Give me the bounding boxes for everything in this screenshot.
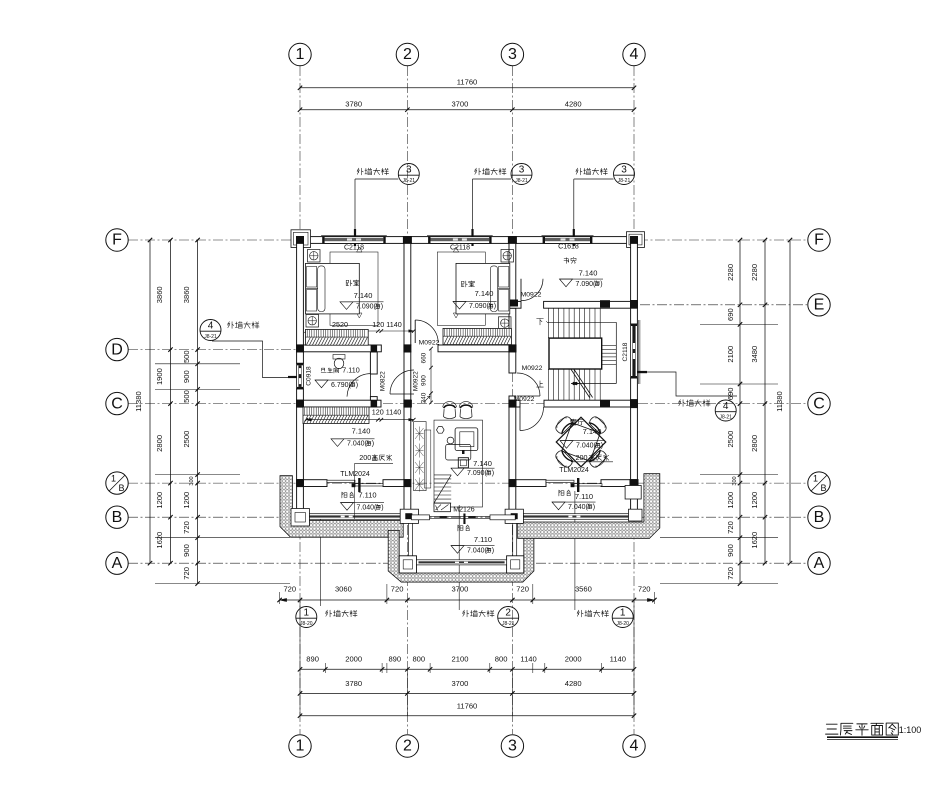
svg-text:4: 4 — [208, 320, 214, 331]
svg-text:800: 800 — [412, 655, 425, 664]
svg-text:1: 1 — [296, 46, 305, 63]
svg-text:4: 4 — [723, 401, 729, 412]
svg-text:7.040(: 7.040( — [568, 504, 589, 511]
svg-text:3780: 3780 — [345, 100, 362, 109]
svg-text:2800: 2800 — [155, 435, 164, 452]
svg-text:7.110: 7.110 — [474, 535, 492, 544]
svg-text:J8-21: J8-21 — [515, 178, 528, 184]
svg-text:C0918: C0918 — [306, 366, 313, 386]
svg-text:1900: 1900 — [155, 368, 164, 385]
svg-text:120 1140: 120 1140 — [372, 320, 401, 329]
svg-text:500: 500 — [182, 390, 191, 403]
svg-text:120 1140: 120 1140 — [372, 407, 401, 416]
svg-text:7.110: 7.110 — [575, 492, 593, 501]
svg-text:3780: 3780 — [345, 679, 362, 688]
svg-text:2: 2 — [403, 46, 412, 63]
svg-text:M2126: M2126 — [453, 507, 475, 514]
svg-text:890: 890 — [306, 655, 319, 664]
svg-text:C: C — [813, 395, 825, 412]
svg-text:): ) — [356, 382, 358, 389]
svg-text:3: 3 — [508, 46, 517, 63]
svg-text:2500: 2500 — [182, 431, 191, 448]
svg-text:7.140: 7.140 — [475, 289, 494, 298]
svg-text:200: 200 — [359, 453, 371, 462]
svg-text:2: 2 — [505, 607, 511, 618]
svg-text:B: B — [112, 509, 123, 526]
svg-text:B: B — [814, 509, 825, 526]
svg-text:C2118: C2118 — [622, 342, 629, 361]
svg-text:3560: 3560 — [575, 585, 592, 594]
svg-text:J8-21: J8-21 — [719, 415, 732, 421]
svg-text:6.790(: 6.790( — [331, 382, 352, 389]
svg-text:900: 900 — [182, 370, 191, 383]
svg-text:1620: 1620 — [155, 532, 164, 549]
svg-text:11760: 11760 — [457, 702, 478, 711]
svg-text:B: B — [118, 483, 124, 493]
svg-text:TLM2024: TLM2024 — [559, 467, 589, 474]
svg-text:690: 690 — [726, 308, 735, 321]
svg-text:): ) — [381, 304, 383, 311]
svg-text:2280: 2280 — [726, 264, 735, 281]
svg-text:3700: 3700 — [451, 585, 468, 594]
svg-text:2500: 2500 — [726, 431, 735, 448]
svg-text:M0822: M0822 — [380, 371, 387, 391]
svg-text:1140: 1140 — [610, 655, 626, 664]
svg-text:7.040(: 7.040( — [357, 504, 378, 511]
svg-text:300: 300 — [189, 476, 195, 485]
svg-text:3060: 3060 — [335, 585, 352, 594]
svg-text:): ) — [601, 442, 603, 449]
svg-text:2280: 2280 — [750, 264, 759, 281]
svg-text:2000: 2000 — [345, 655, 362, 664]
svg-text:3: 3 — [519, 164, 525, 175]
svg-text:2: 2 — [403, 738, 412, 755]
svg-text:7.110: 7.110 — [358, 491, 376, 500]
svg-text:7.040(: 7.040( — [576, 442, 597, 449]
svg-text:1: 1 — [620, 607, 626, 618]
svg-text:11380: 11380 — [134, 391, 143, 412]
svg-text:900: 900 — [421, 375, 428, 386]
svg-text:720: 720 — [638, 585, 651, 594]
svg-text:3: 3 — [621, 164, 627, 175]
svg-text:2100: 2100 — [726, 346, 735, 363]
svg-text:A: A — [112, 555, 123, 572]
svg-text:890: 890 — [388, 655, 401, 664]
svg-text:1200: 1200 — [750, 492, 759, 509]
svg-text:B: B — [820, 483, 826, 493]
svg-text:7.040(: 7.040( — [347, 441, 368, 448]
svg-text:720: 720 — [182, 567, 191, 580]
svg-text:800: 800 — [495, 655, 508, 664]
svg-text:3480: 3480 — [750, 346, 759, 363]
svg-text:1: 1 — [296, 738, 305, 755]
svg-text:4: 4 — [630, 46, 639, 63]
svg-text:C1618: C1618 — [558, 244, 579, 251]
svg-text:1: 1 — [813, 474, 818, 484]
svg-text:720: 720 — [516, 585, 529, 594]
svg-text:200: 200 — [576, 453, 588, 462]
svg-text:): ) — [381, 504, 383, 511]
svg-text:F: F — [814, 232, 824, 249]
svg-text:690: 690 — [726, 387, 735, 400]
svg-text:7.140: 7.140 — [473, 459, 492, 468]
svg-text:3700: 3700 — [451, 100, 468, 109]
svg-text:3: 3 — [406, 164, 412, 175]
svg-text:7.090(: 7.090( — [356, 304, 377, 311]
svg-text:720: 720 — [182, 521, 191, 534]
svg-text:900: 900 — [726, 544, 735, 557]
svg-text:4280: 4280 — [565, 100, 582, 109]
svg-text:7.090(: 7.090( — [576, 281, 597, 288]
svg-text:M0922: M0922 — [413, 371, 420, 391]
svg-text:E: E — [814, 297, 825, 314]
svg-text:1: 1 — [304, 607, 310, 618]
svg-text:7.090(: 7.090( — [467, 470, 488, 477]
svg-text:7.110: 7.110 — [342, 366, 359, 375]
svg-text:F: F — [112, 232, 122, 249]
svg-text:): ) — [600, 281, 602, 288]
svg-text:11380: 11380 — [775, 391, 784, 412]
svg-text:M0922: M0922 — [419, 340, 440, 347]
svg-text:J8-20: J8-20 — [616, 621, 629, 627]
svg-text:720: 720 — [726, 521, 735, 534]
svg-text:1: 1 — [111, 474, 116, 484]
svg-text:J8-21: J8-21 — [502, 621, 515, 627]
svg-text:1200: 1200 — [155, 492, 164, 509]
svg-text:C2118: C2118 — [450, 245, 470, 252]
svg-text:2100: 2100 — [452, 655, 469, 664]
svg-text:7.140: 7.140 — [579, 269, 598, 278]
svg-text:3860: 3860 — [155, 286, 164, 303]
svg-text:J8-21: J8-21 — [403, 178, 416, 184]
svg-text:TLM2024: TLM2024 — [340, 471, 370, 478]
svg-text:1620: 1620 — [750, 532, 759, 549]
svg-text:7.090(: 7.090( — [469, 303, 490, 310]
svg-text:M0922: M0922 — [522, 365, 543, 372]
svg-text:4280: 4280 — [565, 679, 582, 688]
svg-text:3860: 3860 — [182, 286, 191, 303]
svg-text:7.140: 7.140 — [352, 426, 371, 435]
svg-text:): ) — [593, 504, 595, 511]
svg-text:300: 300 — [732, 476, 738, 485]
svg-text:900: 900 — [182, 544, 191, 557]
svg-text:1200: 1200 — [182, 492, 191, 509]
svg-text:7.140: 7.140 — [583, 427, 602, 436]
svg-text:4: 4 — [630, 738, 639, 755]
svg-text:J8-21: J8-21 — [618, 178, 631, 184]
svg-text:1:100: 1:100 — [899, 725, 922, 735]
svg-text:): ) — [494, 303, 496, 310]
svg-text:): ) — [492, 470, 494, 477]
svg-text:M0922: M0922 — [521, 292, 542, 299]
svg-text:J8-21: J8-21 — [204, 334, 217, 340]
svg-text:): ) — [372, 441, 374, 448]
svg-text:3700: 3700 — [451, 679, 468, 688]
svg-text:3: 3 — [508, 738, 517, 755]
svg-text:2520: 2520 — [332, 320, 348, 329]
svg-text:C: C — [111, 395, 123, 412]
svg-text:J8-20: J8-20 — [300, 621, 313, 627]
svg-text:720: 720 — [726, 567, 735, 580]
svg-text:7.040(: 7.040( — [467, 547, 488, 554]
svg-text:2800: 2800 — [750, 435, 759, 452]
svg-text:D: D — [111, 341, 123, 358]
svg-text:1200: 1200 — [726, 492, 735, 509]
svg-text:1140: 1140 — [520, 655, 536, 664]
svg-text:660: 660 — [421, 352, 428, 363]
svg-text:M0922: M0922 — [514, 396, 535, 403]
svg-text:11760: 11760 — [457, 78, 478, 87]
svg-text:): ) — [492, 547, 494, 554]
svg-text:2000: 2000 — [565, 655, 582, 664]
svg-text:720: 720 — [283, 585, 296, 594]
svg-text:7.140: 7.140 — [354, 291, 373, 300]
svg-text:500: 500 — [182, 350, 191, 363]
svg-text:720: 720 — [391, 585, 404, 594]
svg-text:A: A — [814, 555, 825, 572]
